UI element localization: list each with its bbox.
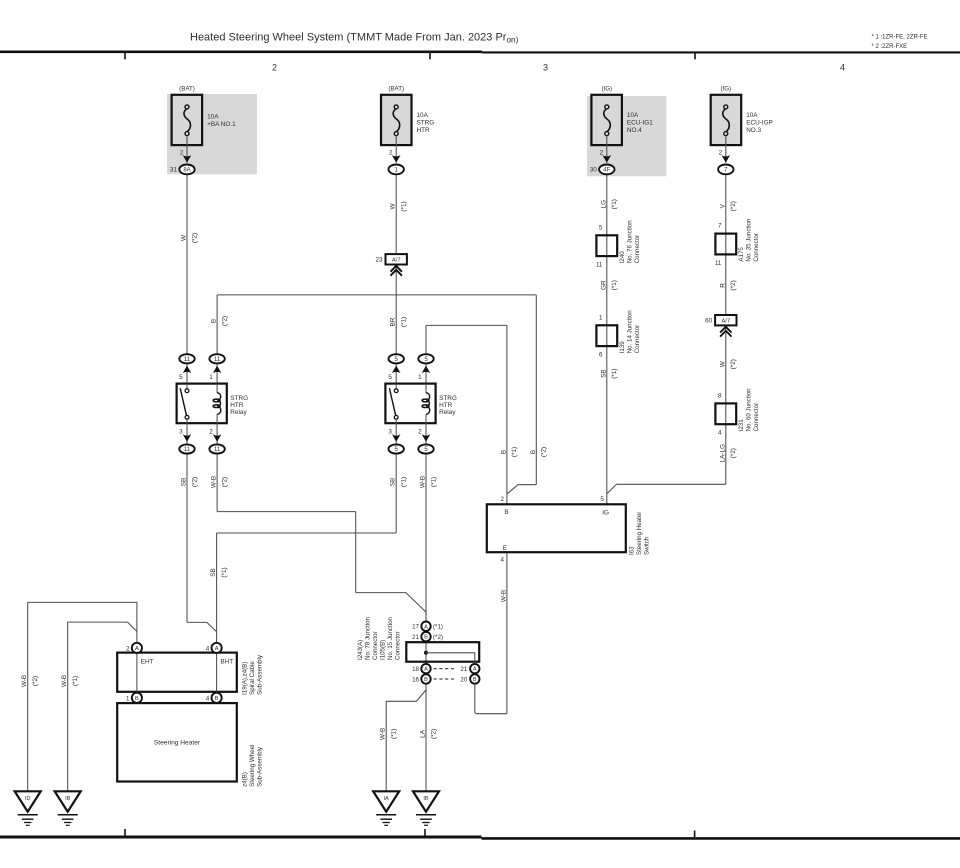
svg-text:31: 31 xyxy=(170,167,178,174)
spiral cable pin 4(A) xyxy=(212,643,222,653)
svg-text:Connector: Connector xyxy=(753,403,760,432)
svg-text:Connector: Connector xyxy=(372,631,379,660)
svg-text:No. 60 Junction: No. 60 Junction xyxy=(746,388,753,432)
svg-text:11: 11 xyxy=(715,260,722,267)
svg-text:Heated Steering Wheel System (: Heated Steering Wheel System (TMMT Made … xyxy=(190,32,519,45)
svg-text:A: A xyxy=(215,646,219,652)
wire W-B (*2) relay 1 pin 2 down xyxy=(216,454,218,512)
svg-text:Connector: Connector xyxy=(753,233,760,262)
junction connector I139 No. 14 (pins 1/6) xyxy=(596,310,641,359)
connector A/7 pin 23 (in-line, column 2) xyxy=(375,254,406,276)
svg-text:STRG: STRG xyxy=(439,395,457,402)
gray background block behind fuse +BA NO.1 xyxy=(167,94,257,174)
svg-text:R: R xyxy=(719,283,726,288)
wire W-B (*2) horizontal run xyxy=(217,511,356,513)
svg-text:* 1 :1ZR-FE, 2ZR-FE: * 1 :1ZR-FE, 2ZR-FE xyxy=(872,35,928,41)
svg-text:E: E xyxy=(503,545,507,552)
ground ID xyxy=(15,791,41,825)
wire B (*2) vertical drop xyxy=(535,295,537,485)
junction connector I240 No. 76 (pins 5/11) xyxy=(596,220,641,269)
svg-text:B: B xyxy=(211,319,218,323)
svg-text:Connector: Connector xyxy=(395,631,402,660)
wire W-B steering heater switch pin E down xyxy=(506,552,508,714)
spiral cable pin 2(A) xyxy=(132,643,142,653)
ground IB (middle) xyxy=(413,791,439,825)
svg-text:1: 1 xyxy=(126,695,130,702)
svg-text:10A: 10A xyxy=(627,112,639,119)
svg-text:(*2): (*2) xyxy=(730,201,737,211)
svg-text:(*1): (*1) xyxy=(611,368,618,378)
svg-text:IA: IA xyxy=(384,796,390,802)
svg-text:(*2): (*2) xyxy=(541,447,548,457)
junction pin 21(B) xyxy=(421,632,430,641)
svg-text:2: 2 xyxy=(126,646,130,653)
svg-text:(*1): (*1) xyxy=(72,676,79,686)
svg-text:1: 1 xyxy=(418,374,422,381)
svg-text:B: B xyxy=(473,677,477,683)
junction pin 16(B) xyxy=(421,674,430,683)
svg-text:10A: 10A xyxy=(417,112,429,119)
svg-text:I240: I240 xyxy=(619,251,626,264)
svg-text:4F: 4F xyxy=(603,168,610,174)
wire LA-LG (*2) horizontal jog into switch pin 5 xyxy=(607,484,726,493)
svg-text:21: 21 xyxy=(412,634,419,641)
wire W-B (*1) branch from junction pin 16(B) to ground IA xyxy=(386,690,426,791)
fuse 10A ECU-IG1 NO.4 with connector 4F pin 30 xyxy=(590,85,654,174)
fuse 10A +BA NO.1 with connector 8A pin 31 xyxy=(170,85,236,174)
svg-text:(*2): (*2) xyxy=(730,359,737,369)
svg-text:B: B xyxy=(424,677,428,683)
svg-text:4: 4 xyxy=(718,430,722,437)
wire B (*2) horizontal run to switch xyxy=(217,294,536,296)
svg-text:7: 7 xyxy=(718,223,722,230)
svg-text:IB: IB xyxy=(423,796,429,802)
svg-text:Relay: Relay xyxy=(439,409,456,416)
svg-text:8: 8 xyxy=(718,392,722,399)
svg-text:Sub-Assembly: Sub-Assembly xyxy=(257,746,264,787)
svg-text:(*1): (*1) xyxy=(391,729,398,739)
svg-text:(*2): (*2) xyxy=(191,477,198,487)
junction pin 21(A) xyxy=(470,664,479,673)
svg-text:B: B xyxy=(215,696,219,702)
svg-text:STRG: STRG xyxy=(230,395,248,402)
svg-text:(*2): (*2) xyxy=(32,676,39,686)
svg-text:1: 1 xyxy=(209,374,213,381)
svg-text:SB: SB xyxy=(390,478,397,487)
wire B (*1) horizontal run to switch xyxy=(426,324,507,326)
svg-text:I231: I231 xyxy=(738,419,745,432)
svg-text:(*1): (*1) xyxy=(611,280,618,290)
svg-text:A: A xyxy=(473,667,477,673)
svg-text:17: 17 xyxy=(412,624,419,631)
bottom border tick 1 xyxy=(124,829,126,836)
svg-text:5: 5 xyxy=(599,224,603,231)
wire SB (*1) relay 2 pin 3 down xyxy=(395,454,397,533)
connector A/7 pin 60 (in-line, column 4) xyxy=(705,315,736,337)
junction pin 18(A) xyxy=(421,664,430,673)
wire B (*1) relay 2 pin 1 riser xyxy=(425,325,427,354)
svg-text:W-B: W-B xyxy=(61,675,68,687)
junction pin 17(A) xyxy=(421,622,430,631)
svg-text:I63: I63 xyxy=(629,546,636,555)
svg-text:No. 78 Junction: No. 78 Junction xyxy=(365,616,372,660)
svg-text:No. 14 Junction: No. 14 Junction xyxy=(627,310,634,354)
svg-text:W-B: W-B xyxy=(420,476,427,488)
svg-text:NO.4: NO.4 xyxy=(627,127,642,134)
svg-text:11: 11 xyxy=(596,262,603,269)
svg-text:No. 15 Junction: No. 15 Junction xyxy=(387,616,394,660)
svg-text:IB: IB xyxy=(65,796,71,802)
svg-text:HTR: HTR xyxy=(230,402,244,409)
svg-text:10A: 10A xyxy=(746,112,758,119)
svg-text:20: 20 xyxy=(460,677,467,684)
wire LA (*2) through junction connector to ground IB xyxy=(425,612,427,791)
svg-text:Spiral Cable: Spiral Cable xyxy=(249,661,256,695)
wire W-B (*2) jog to junction pin 21(B) xyxy=(356,593,426,612)
svg-text:5: 5 xyxy=(388,374,392,381)
junction pin 20(B) xyxy=(470,674,479,683)
svg-text:(*2): (*2) xyxy=(191,233,198,243)
svg-text:IG: IG xyxy=(602,510,609,517)
svg-text:(IG): (IG) xyxy=(720,85,731,92)
svg-text:SB: SB xyxy=(600,369,607,378)
svg-text:1: 1 xyxy=(599,314,603,321)
junction bus with node dot xyxy=(424,651,475,664)
svg-text:(IG): (IG) xyxy=(601,85,612,92)
svg-text:2: 2 xyxy=(418,428,422,435)
svg-text:23: 23 xyxy=(375,257,383,264)
svg-text:W-B: W-B xyxy=(21,675,28,687)
svg-text:B: B xyxy=(530,450,537,454)
gray background block behind fuse ECU-IG1 NO.4 xyxy=(587,96,666,176)
svg-text:(*1): (*1) xyxy=(401,477,408,487)
svg-text:(*2): (*2) xyxy=(730,448,737,458)
wire SB (*1) drop to spiral cable pin 4(A) xyxy=(216,533,218,643)
svg-text:10A: 10A xyxy=(207,114,219,121)
svg-text:(BAT): (BAT) xyxy=(388,85,404,92)
svg-text:(*2): (*2) xyxy=(430,729,437,739)
junction connector I243(A)/I105(B) block xyxy=(406,642,479,662)
svg-text:(*1): (*1) xyxy=(430,477,437,487)
top border tick 1 xyxy=(124,53,126,59)
svg-text:Connector: Connector xyxy=(634,325,641,354)
svg-text:z4(B): z4(B) xyxy=(242,772,249,787)
svg-text:W: W xyxy=(181,234,188,241)
svg-text:2: 2 xyxy=(600,149,604,156)
svg-text:ECU-IGP: ECU-IGP xyxy=(746,120,773,127)
junction connector I231 No. 60 (pins 8/4) xyxy=(715,388,760,437)
svg-text:W: W xyxy=(719,360,726,367)
wire SB (*1) horizontal run to spiral cable xyxy=(217,532,397,534)
svg-text:Switch: Switch xyxy=(644,536,651,555)
wire W/BR (*1) fuse STRG HTR to relay 2 pin 5 xyxy=(395,174,397,354)
svg-text:I139: I139 xyxy=(619,341,626,354)
svg-text:LA: LA xyxy=(420,729,427,738)
dashed link pins 16(B)-20(B) xyxy=(434,678,457,680)
svg-text:BR: BR xyxy=(390,317,397,326)
svg-text:I105(B): I105(B) xyxy=(380,640,387,660)
svg-text:NO.3: NO.3 xyxy=(746,127,761,134)
svg-text:18: 18 xyxy=(412,666,419,673)
svg-text:21: 21 xyxy=(460,666,467,673)
svg-text:B: B xyxy=(500,450,507,454)
bottom frame border (right half) xyxy=(482,837,960,840)
svg-text:2: 2 xyxy=(719,149,723,156)
svg-text:STRG: STRG xyxy=(417,120,435,127)
wire B (*2) jog joining switch pin 2 xyxy=(507,485,536,494)
svg-text:30: 30 xyxy=(590,167,598,174)
svg-text:60: 60 xyxy=(705,318,713,325)
bottom border tick 2 xyxy=(424,829,426,836)
svg-text:A175: A175 xyxy=(738,247,745,262)
wire B (*1) vertical drop to switch pin 2 xyxy=(506,325,508,504)
wire SB (*2) relay 1 pin 3 down xyxy=(186,454,188,622)
svg-text:(*2): (*2) xyxy=(730,280,737,290)
wire W-B (*1) spiral cable pin 2(A) to ground IB xyxy=(68,622,137,791)
svg-text:V: V xyxy=(719,203,726,208)
svg-text:B: B xyxy=(504,509,508,516)
svg-text:(*1): (*1) xyxy=(221,567,228,577)
svg-text:2: 2 xyxy=(180,149,184,156)
svg-text:(*1): (*1) xyxy=(401,201,408,211)
svg-text:11: 11 xyxy=(214,357,221,363)
svg-text:ECU-IG1: ECU-IG1 xyxy=(627,120,653,127)
top frame border (right half) xyxy=(482,51,960,53)
svg-text:11: 11 xyxy=(184,447,191,453)
svg-text:11: 11 xyxy=(214,447,221,453)
svg-text:BHT: BHT xyxy=(220,659,233,666)
wire W-B junction pin 20(B) to switch E wire xyxy=(475,684,507,714)
svg-text:LG: LG xyxy=(600,200,607,209)
svg-text:A/7: A/7 xyxy=(392,258,401,264)
svg-text:EHT: EHT xyxy=(141,659,154,666)
fuse 10A ECU-IGP NO.3 with connector pin 7 xyxy=(711,85,773,174)
spiral cable sub-assembly I19(A),z4(B) xyxy=(117,653,237,693)
svg-text:4: 4 xyxy=(840,63,845,73)
spiral cable pin 4(B) xyxy=(212,693,222,703)
svg-text:A/7: A/7 xyxy=(721,319,730,325)
wire LG/GR/SB (*1) fuse ECU-IG1 to steering heater switch pin 5 xyxy=(606,174,608,504)
svg-text:4: 4 xyxy=(206,646,210,653)
svg-text:ID: ID xyxy=(25,796,31,802)
svg-text:4: 4 xyxy=(500,557,504,564)
svg-text:(BAT): (BAT) xyxy=(179,85,195,92)
svg-text:SB: SB xyxy=(181,478,188,487)
svg-text:5: 5 xyxy=(179,374,183,381)
svg-text:2: 2 xyxy=(209,428,213,435)
svg-text:4: 4 xyxy=(206,695,210,702)
ground IA xyxy=(373,791,399,825)
svg-text:11: 11 xyxy=(184,357,191,363)
wire B (*2) relay 1 pin 1 riser xyxy=(216,295,218,355)
svg-text:(*1): (*1) xyxy=(433,624,443,631)
svg-text:LA-LG: LA-LG xyxy=(719,444,726,462)
svg-text:W-B: W-B xyxy=(500,590,507,602)
svg-text:A: A xyxy=(424,667,428,673)
svg-text:W-B: W-B xyxy=(211,476,218,488)
relay 2 STRG HTR Relay (pins 5,1,3,2 / connector 5) xyxy=(385,354,456,453)
svg-text:Relay: Relay xyxy=(230,409,247,416)
svg-text:Steering Heater: Steering Heater xyxy=(636,512,643,555)
svg-text:(*1): (*1) xyxy=(511,447,518,457)
dashed link pins 18(A)-21(A) xyxy=(434,668,457,670)
switch I63 Steering Heater Switch xyxy=(487,496,626,564)
svg-text:16: 16 xyxy=(412,677,419,684)
wire SB (*2) jog to spiral cable pin 4(A) xyxy=(187,622,217,631)
steering heater (steering wheel sub-assembly z4(B)) xyxy=(117,703,237,781)
bottom border tick 3 xyxy=(694,831,696,838)
svg-text:(*2): (*2) xyxy=(433,634,443,641)
svg-text:Steering Heater: Steering Heater xyxy=(154,739,201,746)
svg-text:I243(A): I243(A) xyxy=(357,640,364,660)
svg-text:2: 2 xyxy=(389,149,393,156)
svg-text:3: 3 xyxy=(388,428,392,435)
svg-text:I19(A),z4(B): I19(A),z4(B) xyxy=(242,662,249,695)
wire V/R/W/LA-LG (*2) fuse ECU-IGP toward switch pin 5 xyxy=(725,174,727,484)
svg-text:(*2): (*2) xyxy=(221,477,228,487)
svg-text:2: 2 xyxy=(500,496,504,503)
wire W-B (*2) spiral cable pin 2(A) to ground ID xyxy=(28,602,137,791)
spiral cable pin 1(B) xyxy=(132,693,142,703)
svg-text:8A: 8A xyxy=(183,168,190,174)
svg-text:Connector: Connector xyxy=(634,235,641,264)
bottom frame border (left half) xyxy=(0,835,482,838)
svg-text:2: 2 xyxy=(272,63,277,73)
svg-text:(*2): (*2) xyxy=(221,316,228,326)
wire W-B (*2) vertical segment xyxy=(355,512,357,593)
junction connector A175 No. 35 (pins 7/11) xyxy=(715,218,760,267)
svg-text:SB: SB xyxy=(210,568,217,577)
svg-text:3: 3 xyxy=(543,63,548,73)
top border tick 2 xyxy=(429,53,431,59)
svg-text:B: B xyxy=(135,696,139,702)
fuse 10A STRG HTR with connector pin 1 xyxy=(381,85,434,174)
svg-text:GR: GR xyxy=(600,280,607,290)
svg-text:No. 35 Junction: No. 35 Junction xyxy=(746,218,753,262)
relay 1 STRG HTR Relay (pins 5,1,3,2 / connector 11) xyxy=(177,354,248,453)
svg-text:HTR: HTR xyxy=(439,402,453,409)
top frame border (left half) xyxy=(0,50,482,53)
svg-text:No. 76 Junction: No. 76 Junction xyxy=(627,220,634,264)
svg-text:Sub-Assembly: Sub-Assembly xyxy=(257,654,264,695)
svg-text:A: A xyxy=(135,646,139,652)
svg-text:5: 5 xyxy=(600,496,604,503)
top border tick 3 xyxy=(694,53,696,59)
svg-text:+BA NO.1: +BA NO.1 xyxy=(207,121,236,128)
svg-text:W-B: W-B xyxy=(380,728,387,740)
wire W (*2) fuse +BA NO.1 to relay 1 pin 5 xyxy=(186,174,188,354)
svg-text:* 2 :2ZR-FXE: * 2 :2ZR-FXE xyxy=(872,44,908,50)
svg-text:(*1): (*1) xyxy=(611,199,618,209)
svg-text:HTR: HTR xyxy=(417,127,431,134)
svg-text:B: B xyxy=(424,635,428,641)
wire W-B (*1) relay 2 pin 2 down to junction pin 17(A) xyxy=(425,454,427,622)
svg-text:W: W xyxy=(390,203,397,210)
svg-text:3: 3 xyxy=(179,428,183,435)
svg-text:A: A xyxy=(424,624,428,630)
svg-text:Steering Wheel: Steering Wheel xyxy=(249,745,256,787)
svg-text:(*1): (*1) xyxy=(401,317,408,327)
ground IB (left) xyxy=(55,791,81,825)
svg-text:6: 6 xyxy=(599,352,603,359)
